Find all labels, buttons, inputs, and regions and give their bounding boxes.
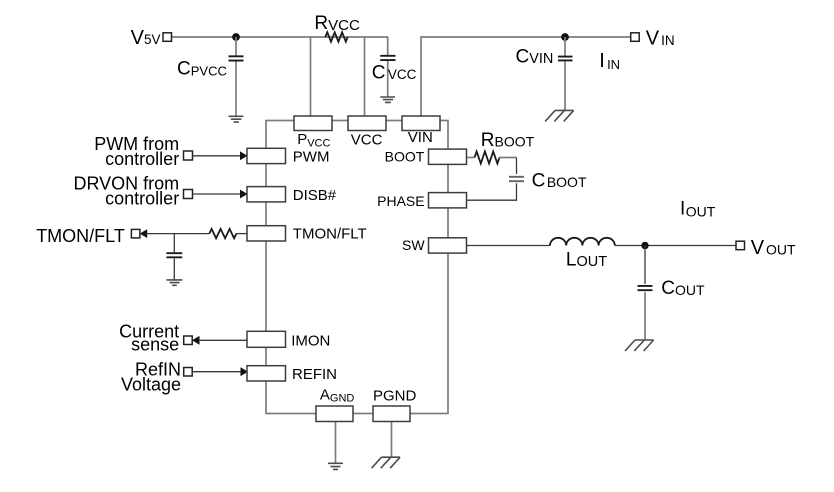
- pin VCC: [348, 116, 386, 131]
- resistor RBOOT: [475, 152, 500, 164]
- wire IMON arrow: [192, 336, 200, 345]
- terminal Current sense: [184, 336, 193, 345]
- svg-text:IMON: IMON: [291, 332, 330, 349]
- wire VCC drop: [364, 37, 366, 117]
- capacitor CVIN: [558, 57, 573, 61]
- svg-text:TMON/FLT: TMON/FLT: [293, 226, 367, 243]
- svg-text:controller: controller: [105, 149, 179, 169]
- svg-text:controller: controller: [105, 189, 179, 209]
- pin PHASE: [429, 193, 467, 208]
- ground (CVIN, chassis): [545, 110, 574, 121]
- wire resistor to TMON pin: [236, 233, 247, 235]
- wire AGND stem: [335, 422, 337, 464]
- capacitor CVCC: [380, 56, 395, 60]
- wire VIN rail: [421, 37, 631, 117]
- wire PGND stem: [391, 422, 393, 458]
- wire TMON cap branch: [173, 234, 175, 280]
- terminal VOUT: [736, 241, 745, 250]
- pin PVCC: [294, 116, 332, 131]
- pin PWM: [247, 148, 286, 163]
- node VOUT junction: [641, 242, 648, 249]
- wire RBOOT to CBOOT: [500, 157, 517, 159]
- wire CBOOT to PHASE: [467, 183, 517, 200]
- wire REFIN arrow: [192, 371, 241, 373]
- svg-text:PHASE: PHASE: [377, 193, 424, 209]
- ground (COUT, chassis): [625, 340, 654, 351]
- pin SW: [429, 238, 467, 253]
- svg-text:BOOT: BOOT: [385, 148, 425, 164]
- wire CVCC branch: [387, 37, 389, 97]
- node V5V junction: [232, 33, 240, 41]
- wire BOOT to RBOOT: [467, 157, 475, 159]
- svg-text:PGND: PGND: [373, 387, 417, 404]
- ground (CPVCC): [229, 116, 244, 122]
- svg-text:VIN: VIN: [408, 129, 433, 146]
- wire PWM arrow: [193, 155, 241, 157]
- wire COUT branch: [644, 246, 646, 285]
- svg-text:Voltage: Voltage: [121, 374, 181, 394]
- pin PGND: [373, 406, 410, 422]
- capacitor C (TMON): [166, 253, 182, 257]
- wire CVIN branch: [564, 37, 566, 110]
- pin TMON/FLT: [247, 226, 286, 241]
- svg-text:CBOOT: CBOOT: [532, 171, 587, 192]
- terminal TMON/FLT output: [131, 229, 140, 238]
- wire TMON arrow: [140, 229, 148, 238]
- svg-text:RVCC: RVCC: [314, 13, 360, 34]
- node VIN junction: [561, 33, 569, 41]
- IC U1 body: [266, 121, 448, 414]
- pin VIN: [402, 116, 440, 131]
- pin BOOT: [429, 149, 467, 164]
- wire V5V rail: [172, 36, 389, 38]
- resistor RVCC: [325, 32, 347, 41]
- ground (AGND): [328, 463, 343, 469]
- ground (TMON cap): [167, 280, 183, 285]
- terminal V5V: [163, 33, 172, 42]
- terminal DISB# input: [184, 190, 193, 199]
- pin DISB#: [247, 187, 286, 202]
- inductor LOUT: [550, 238, 615, 246]
- wire SW to LOUT: [467, 245, 551, 247]
- terminal RefIN: [184, 368, 193, 377]
- pin REFIN: [247, 366, 286, 381]
- svg-text:COUT: COUT: [661, 278, 705, 299]
- svg-text:sense: sense: [131, 334, 179, 354]
- capacitor CBOOT: [509, 177, 524, 181]
- terminal VIN: [631, 33, 640, 42]
- svg-text:TMON/FLT: TMON/FLT: [36, 226, 125, 246]
- wire LOUT to VOUT: [615, 245, 736, 247]
- terminal PWM input: [184, 151, 193, 160]
- capacitor CPVCC: [229, 56, 244, 60]
- svg-text:RBOOT: RBOOT: [481, 130, 535, 151]
- resistor R (TMON): [209, 229, 236, 238]
- pin IMON: [247, 331, 286, 347]
- pin AGND: [316, 406, 353, 422]
- wire PVCC drop: [310, 37, 312, 117]
- wire CPVCC branch: [235, 37, 237, 116]
- ground (CVCC): [380, 97, 395, 102]
- svg-text:SW: SW: [402, 237, 425, 253]
- svg-text:VCC: VCC: [351, 131, 383, 148]
- svg-text:DISB#: DISB#: [293, 187, 337, 204]
- svg-text:REFIN: REFIN: [292, 366, 337, 383]
- capacitor COUT: [638, 286, 653, 290]
- svg-text:PWM: PWM: [293, 149, 330, 166]
- ground (PGND, chassis): [372, 457, 401, 468]
- wire DISB# arrow: [193, 193, 241, 195]
